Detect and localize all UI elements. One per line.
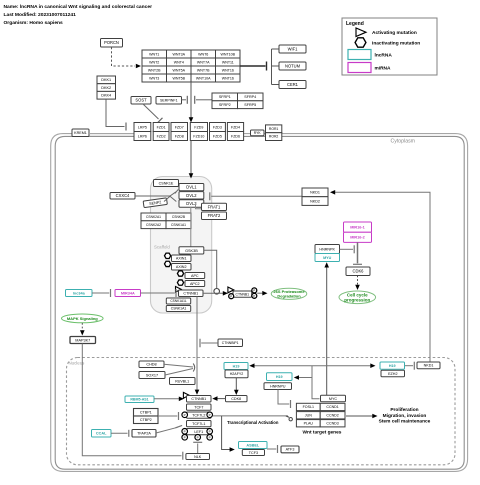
node inhibition bar H19 inhibits NKD1 (413, 362, 415, 370)
node group target genes FOSL1/CCND1 (296, 403, 345, 410)
node inhibition bar SFRP inhibits WNT signal (194, 96, 196, 104)
svg-text:DKK1: DKK1 (101, 78, 111, 82)
svg-text:FZD4: FZD4 (231, 125, 240, 129)
wire CTNNB1 to phospho-CTNNB1 (203, 292, 224, 294)
node inhibition bar TFAP2A inhibits LEF1 (176, 425, 183, 427)
svg-text:P: P (184, 436, 186, 440)
svg-text:SOST: SOST (135, 98, 147, 103)
svg-text:WNT5A: WNT5A (173, 68, 186, 72)
node inhibition bar SOST inhibits receptor (158, 118, 163, 123)
wire TFAP2A to LEF1 (156, 427, 178, 433)
svg-text:CDK8: CDK8 (231, 397, 241, 401)
svg-text:MIR16-1: MIR16-1 (350, 226, 365, 230)
wire MIR16 to CDK6 (357, 242, 359, 263)
node group NKD cytoplasmic (302, 188, 328, 205)
node phosphosite LEF1 bottom-middle P (195, 435, 201, 441)
svg-text:HNRNPU: HNRNPU (270, 384, 286, 388)
svg-text:GSK3B: GSK3B (185, 249, 198, 253)
wire MIR34A to CTNNB1 (141, 292, 175, 294)
svg-text:Scaffold: Scaffold (154, 245, 170, 250)
node WIF1 (279, 45, 306, 53)
svg-text:CER1: CER1 (287, 82, 299, 87)
svg-text:CTNNB1: CTNNB1 (236, 292, 250, 296)
wire DKK to LRP (106, 99, 125, 126)
wire bracket to CER1 (272, 84, 280, 86)
wire target genes to outcomes (346, 415, 373, 417)
svg-text:CCAL: CCAL (96, 432, 107, 436)
svg-text:AXIN1: AXIN1 (176, 257, 187, 261)
wire NLK to LEF1 phosphosites (197, 444, 199, 454)
node arrowhead receptor to DVL (189, 173, 194, 178)
node CXXC4 (110, 193, 135, 200)
svg-text:LRP6: LRP6 (138, 134, 147, 138)
svg-text:FZD5: FZD5 (213, 134, 222, 138)
node CER1 (279, 81, 306, 89)
node arrowhead MYC to H19b (294, 375, 299, 380)
svg-text:APC2: APC2 (190, 282, 200, 286)
svg-text:H19: H19 (233, 364, 240, 368)
node mutation triangle nuclear CTNNB1 activating (183, 392, 189, 398)
svg-text:FZD7: FZD7 (175, 125, 184, 129)
node arrowhead to H19c (370, 363, 375, 368)
node HNRNPK (315, 245, 340, 254)
node SOST (131, 97, 151, 105)
scaffold complex group box (151, 177, 212, 314)
wire bracket to NOTUM (272, 65, 280, 67)
node TCF3 (242, 450, 264, 456)
svg-text:CSNK1A1: CSNK1A1 (171, 307, 187, 311)
svg-text:WNT3: WNT3 (149, 76, 159, 80)
svg-text:LRP5: LRP5 (138, 125, 147, 129)
node arrowhead to degradation (262, 291, 267, 296)
node arrowhead to ASBEL (230, 447, 235, 452)
wire PORCN to WNT (dashed) (112, 47, 136, 66)
node lnc34a (66, 290, 93, 297)
svg-text:WNT11: WNT11 (222, 60, 234, 64)
node MAP3K7 (70, 337, 96, 344)
node phosphosite TCF7L2 right P (207, 412, 213, 418)
wire CDK8 to CTNNB1 (216, 398, 226, 400)
wire SOX17 to CTNNB1 line (165, 369, 193, 376)
svg-text:P: P (253, 294, 255, 298)
svg-text:Cytoplasm: Cytoplasm (390, 139, 415, 145)
svg-text:Last Modified: 20231007011241: Last Modified: 20231007011241 (4, 12, 77, 18)
node group SFRP inhibitors (212, 93, 263, 109)
node CTNNB1 (179, 290, 204, 297)
svg-text:WNT2B: WNT2B (148, 68, 161, 72)
svg-text:Legend: Legend (346, 21, 364, 27)
node inhibition bar CTBP inhibits TCF7L2 (178, 412, 180, 420)
svg-text:RBM5-AS1: RBM5-AS1 (130, 398, 148, 402)
node phosphosite LEF1 right P (207, 429, 213, 435)
node CSNK1A1 (166, 306, 190, 312)
wire lnc34a to MIR34A (92, 292, 109, 294)
node transcription glyph (286, 416, 293, 421)
legend lncRNA box (348, 50, 371, 60)
svg-text:SFRP4: SFRP4 (244, 95, 256, 99)
node arrowhead to phospho-CTNNB1 (223, 291, 228, 296)
svg-text:CTNNBIP1: CTNNBIP1 (222, 341, 239, 345)
svg-text:CSNK1A1: CSNK1A1 (171, 223, 186, 227)
svg-text:Transcriptional Activation: Transcriptional Activation (227, 420, 279, 425)
svg-text:WNT16: WNT16 (222, 76, 234, 80)
node group receptor LRP5/LRP6 (134, 123, 151, 141)
svg-text:CSNK2A1: CSNK2A1 (146, 215, 161, 219)
svg-text:CCND3: CCND3 (326, 422, 338, 426)
wire CTBP to TCF7L2 (158, 415, 177, 417)
node SENP2 (143, 198, 167, 208)
svg-text:HNRNPK: HNRNPK (319, 247, 335, 251)
svg-text:ROR2: ROR2 (269, 135, 279, 139)
node arrowhead WNT to receptor complex (189, 117, 194, 122)
wire MYC bracket to H19c (312, 365, 371, 367)
node phosphosite phospho-CTNNB1 site 1 (229, 294, 234, 299)
wire MYC to H19b (298, 377, 313, 379)
node H19 (c) (380, 362, 405, 369)
svg-text:MIR34A: MIR34A (121, 291, 135, 295)
svg-text:Wnt target genes: Wnt target genes (303, 429, 342, 435)
node APC2 (185, 281, 205, 287)
wire DVL to FRAT (196, 205, 202, 209)
node inhibition bar MYU inhibits MIR16 action (353, 245, 355, 253)
node RBM5-AS1 (125, 396, 154, 403)
svg-text:NKD1: NKD1 (424, 364, 434, 368)
node PORCN (101, 39, 123, 48)
node mutation triangle phospho-CTNNB1 activating (228, 287, 234, 293)
wire MYU complex to MIR16 action (340, 248, 354, 250)
node DVL1 (179, 184, 204, 191)
node LEF1 (187, 429, 212, 435)
svg-text:Migration, invasion: Migration, invasion (383, 413, 427, 419)
node SOX17 (139, 372, 165, 379)
svg-text:WNT7B: WNT7B (197, 68, 210, 72)
node CSNK1A1L (166, 298, 190, 304)
svg-text:SFRP2: SFRP2 (219, 103, 231, 107)
svg-text:lncRNA: lncRNA (375, 53, 393, 59)
svg-text:DKK2: DKK2 (101, 86, 111, 90)
wire HNRNPU to target genes (278, 390, 289, 405)
node inhibition bar fork upper tip (175, 190, 178, 194)
node arrowhead RBM5-AS1 to CTNNB1 (179, 397, 184, 402)
node MIR16-2 (344, 232, 372, 242)
node arrowhead to NKD1 (330, 190, 335, 195)
node GSK3B (179, 247, 204, 254)
svg-text:CXXC4: CXXC4 (116, 193, 130, 198)
node arrowhead CDK8 to CTNNB1 (212, 396, 217, 401)
wire CHD8 to CTNNB1 line (164, 364, 193, 367)
legend activating-mutation triangle (356, 28, 366, 37)
svg-text:WNT1: WNT1 (149, 52, 159, 56)
svg-text:Name: lncRNA in canonical Wnt: Name: lncRNA in canonical Wnt signaling … (4, 4, 153, 10)
wire KREM1 to LRP upper (89, 133, 134, 135)
svg-text:FZD10: FZD10 (193, 134, 204, 138)
svg-text:CSNK2A2: CSNK2A2 (146, 223, 161, 227)
node group receptor FZD3/FZD5 (210, 123, 226, 141)
node label Cell cycle progression (339, 291, 376, 304)
svg-text:NLK: NLK (194, 455, 202, 459)
wire fork lower branch (170, 196, 176, 201)
wire MYC to MYU (326, 266, 328, 395)
node EZH2 (381, 370, 405, 377)
wire NKD to DVL (211, 195, 302, 197)
svg-text:lnc34a: lnc34a (73, 291, 86, 295)
svg-text:ROR1: ROR1 (269, 127, 279, 131)
wire MYC to H19 bracket (312, 366, 320, 399)
svg-text:H2AFY2: H2AFY2 (230, 372, 244, 376)
node arrowhead CTNNB1 into nucleus (195, 390, 200, 395)
node CHD8 (139, 361, 164, 368)
svg-text:CSNK1A1L: CSNK1A1L (170, 299, 187, 303)
wire nuclear NKD1 to cytoplasmic NKD (335, 192, 431, 361)
node phosphosite TCF7L2 left P (182, 412, 188, 418)
svg-text:DKK4: DKK4 (101, 94, 111, 98)
svg-text:APC: APC (191, 274, 199, 278)
node ATF3 (281, 446, 299, 453)
svg-text:miRNA: miRNA (375, 66, 392, 72)
svg-text:WNT3A: WNT3A (173, 52, 186, 56)
node KREM1 (72, 129, 89, 137)
svg-text:P: P (184, 413, 186, 417)
node inhibition bar MAP3K7 acts on NLK (182, 452, 184, 460)
svg-text:WNT6: WNT6 (198, 52, 208, 56)
node CCAL (92, 430, 112, 438)
svg-text:JUN: JUN (305, 414, 312, 418)
node group receptor FZD7/FZD8 (171, 123, 188, 141)
node CSNK1E (154, 180, 179, 187)
wire GSK3B catalysis (204, 250, 217, 288)
svg-text:Degradation: Degradation (277, 294, 301, 299)
svg-text:WNT10B: WNT10B (221, 52, 236, 56)
node arrowhead target genes to outcomes (372, 414, 377, 419)
wire CTNNB1 into nucleus (196, 297, 198, 391)
wire WNT inhibitors to WNT table (240, 65, 266, 67)
svg-text:CTBP1: CTBP1 (140, 411, 152, 415)
svg-text:P: P (209, 436, 211, 440)
node arrowhead MAPK to MAP3K7 (80, 330, 85, 335)
svg-text:FRAT2: FRAT2 (208, 213, 221, 218)
node group CSNK2 kinases (141, 213, 191, 229)
node arrowhead CDK6 to cell cycle (355, 285, 360, 290)
svg-text:WNT4: WNT4 (174, 60, 184, 64)
svg-text:FZD1: FZD1 (157, 125, 166, 129)
node inhibition bar CCAL inhibits TFAP2A (128, 430, 130, 437)
svg-text:MYC: MYC (329, 397, 338, 401)
svg-text:MIR16-2: MIR16-2 (350, 236, 365, 240)
svg-text:FZD8: FZD8 (175, 134, 184, 138)
node ASBEL (239, 442, 268, 449)
svg-text:EZH2: EZH2 (388, 372, 397, 376)
node inhibition bar SERPINF1 inhibits WNT signal (186, 96, 188, 104)
svg-text:DVL1: DVL1 (186, 185, 197, 190)
wire CTNNBIP1 to CTNNB1 (201, 342, 218, 344)
svg-text:FZD3: FZD3 (213, 125, 222, 129)
svg-text:PLAU: PLAU (304, 422, 314, 426)
node inhibition bar MIR34A inhibits CTNNB1 (175, 289, 177, 297)
svg-text:TCF7L2: TCF7L2 (192, 414, 205, 418)
svg-text:CTNNB1: CTNNB1 (191, 397, 206, 401)
svg-text:FZD6: FZD6 (231, 134, 240, 138)
node TCF7L2 (187, 412, 212, 418)
svg-text:FZD9: FZD9 (194, 125, 203, 129)
svg-text:SOX17: SOX17 (146, 373, 158, 377)
svg-text:TFAP2A: TFAP2A (137, 432, 151, 436)
svg-text:TCF7L1: TCF7L1 (192, 422, 205, 426)
svg-text:RUVBL1: RUVBL1 (175, 379, 189, 383)
wire SERPINF1 to WNT signal (182, 99, 187, 101)
node mutation hexagon APC inactivating (177, 271, 183, 276)
svg-text:NOTUM: NOTUM (285, 64, 301, 69)
node phosphosite phospho-CTNNB1 site 2 (252, 288, 257, 293)
svg-text:CHD8: CHD8 (146, 363, 156, 367)
svg-text:FZD2: FZD2 (157, 134, 166, 138)
node phosphosite LEF1 bottom-left P (182, 435, 188, 441)
svg-text:Inactivating mutation: Inactivating mutation (372, 41, 420, 47)
wire H2AFY2 to CDK8 (235, 378, 237, 392)
wire CXXC4 to DVL (135, 195, 170, 197)
node mutation hexagon AXIN2 inactivating (165, 261, 171, 266)
svg-text:P: P (184, 430, 186, 434)
node SERPINF1 (156, 97, 182, 105)
node label 26S Proteasome Degradation (271, 288, 307, 299)
svg-text:P: P (253, 289, 255, 293)
node inhibition bar WIF group inhibits WNT (266, 62, 268, 71)
svg-text:progression: progression (344, 298, 370, 303)
svg-text:H19: H19 (389, 364, 396, 368)
node group CTBP corepressors (134, 409, 159, 424)
svg-text:NKD2: NKD2 (310, 199, 320, 203)
wire phospho-CTNNB1 to degradation (257, 292, 264, 294)
node group ROR receptors (266, 125, 282, 141)
node mutation hexagon AXIN1 inactivating (165, 253, 171, 258)
node RYK (251, 130, 265, 136)
svg-text:WNT7A: WNT7A (197, 60, 210, 64)
svg-text:KREM1: KREM1 (74, 131, 87, 135)
svg-text:LEF1: LEF1 (194, 430, 203, 434)
node phosphosite LEF1 left P (182, 429, 188, 435)
node MIR34A (115, 290, 141, 297)
wire bracket to WIF1 (272, 48, 280, 50)
node AXIN2 (172, 264, 192, 271)
svg-text:MAPK Signaling: MAPK Signaling (67, 316, 98, 321)
svg-text:Activating mutation: Activating mutation (372, 30, 417, 36)
svg-text:ATF3: ATF3 (286, 448, 295, 452)
node group target genes JUN/CCND2 (296, 412, 345, 419)
wire transcription branch to ASBEL (222, 416, 231, 450)
node NLK (186, 454, 210, 460)
svg-text:P: P (209, 430, 211, 434)
wire receptor to DVL (190, 141, 192, 175)
svg-text:TCF7: TCF7 (194, 406, 203, 410)
svg-text:SERPINF1: SERPINF1 (160, 99, 178, 103)
svg-text:RYK: RYK (254, 131, 262, 135)
node group DKK inhibitors (97, 76, 116, 99)
node H2AFY2 (225, 370, 248, 378)
node MYC (321, 395, 346, 401)
node inhibition bar DKK inhibits LRP (125, 123, 127, 131)
svg-text:SFRP5: SFRP5 (244, 103, 256, 107)
svg-text:CDK6: CDK6 (353, 269, 365, 274)
svg-text:WIF1: WIF1 (288, 47, 299, 52)
label outcomes (379, 407, 431, 425)
svg-text:NKD1: NKD1 (310, 191, 320, 195)
node mutation triangle CTNNB1 activating (176, 287, 182, 293)
svg-text:FOSL1: FOSL1 (303, 405, 314, 409)
node group receptor FZD9/FZD10 (190, 123, 207, 141)
node CTNNB1 phosphorylated (233, 291, 252, 297)
wire CDK6 to cell cycle (dashed) (357, 276, 359, 287)
svg-text:ASBEL: ASBEL (246, 443, 260, 447)
svg-text:WNT16: WNT16 (222, 68, 234, 72)
node CTNNBIP1 (218, 339, 243, 347)
wire MAPK to MAP3K7 (dashed) (81, 323, 83, 332)
wire H19 to NKD1 (405, 365, 414, 367)
node CDK8 (226, 396, 248, 402)
svg-text:H19: H19 (276, 375, 283, 379)
node group receptor FZD4/FZD6 (227, 123, 243, 141)
cell membrane outer (51, 134, 468, 472)
node H19 (a) (224, 363, 248, 370)
node inhibition bar NKD inhibits DVL (209, 192, 211, 200)
wire WIF group bracket (271, 49, 273, 85)
svg-text:P: P (197, 436, 199, 440)
node H19 (b) (267, 373, 293, 381)
svg-text:SFRP1: SFRP1 (219, 95, 231, 99)
node group WNT ligands (142, 50, 240, 82)
node catalysis circle GSK3B (214, 289, 220, 295)
svg-text:Proliferation: Proliferation (390, 407, 418, 413)
svg-text:Organism: Homo sapiens: Organism: Homo sapiens (4, 20, 64, 26)
node APC (185, 273, 205, 279)
svg-text:FRAT1: FRAT1 (208, 204, 221, 209)
node DVL2 (179, 192, 204, 199)
node CTNNB1 nuclear (187, 396, 212, 403)
svg-text:AXIN2: AXIN2 (176, 265, 187, 269)
nucleus membrane (dashed) (67, 358, 456, 465)
svg-text:P: P (230, 294, 232, 298)
node NOTUM (279, 62, 306, 70)
node arrowhead MYC to H19a (249, 363, 254, 368)
svg-text:Stem cell maintenance: Stem cell maintenance (379, 419, 431, 425)
svg-text:WNT2: WNT2 (149, 60, 159, 64)
node inhibition bar NLK inhibits TCF/LEF (193, 441, 202, 443)
wire ASBEL to ATF3 (267, 448, 276, 450)
node MYU (315, 254, 340, 262)
svg-text:CTNNB1: CTNNB1 (183, 292, 198, 296)
node convergence arc (193, 364, 195, 372)
svg-text:DVL2: DVL2 (186, 193, 197, 198)
node TCF7 (187, 404, 212, 410)
svg-text:CCND2: CCND2 (326, 414, 338, 418)
node NKD1 nuclear (417, 362, 440, 369)
svg-text:CSNK1E: CSNK1E (159, 181, 174, 185)
wire SOST to receptor (143, 104, 159, 119)
wire RBM5-AS1 to CTNNB1 (154, 398, 180, 400)
node RUVBL1 (170, 378, 196, 385)
wire SENP2 to DVL (164, 196, 170, 201)
svg-text:TCF3: TCF3 (249, 451, 258, 455)
node phosphosite LEF1 bottom-right P (207, 435, 213, 441)
cell membrane inner (55, 136, 464, 469)
node mutation hexagon APC2 inactivating (177, 280, 183, 285)
node inhibition bar CTNNBIP1 inhibits CTNNB1 (199, 339, 201, 348)
node group target genes PLAU/CCND3 (296, 420, 345, 427)
node phosphosite phospho-CTNNB1 site 3 (252, 293, 257, 298)
node FRAT2 (202, 212, 227, 220)
node DVL3 (179, 200, 204, 208)
wire TCF7L2 transcription (213, 415, 288, 417)
node FRAT1 (202, 203, 227, 210)
node AXIN1 (172, 255, 192, 262)
